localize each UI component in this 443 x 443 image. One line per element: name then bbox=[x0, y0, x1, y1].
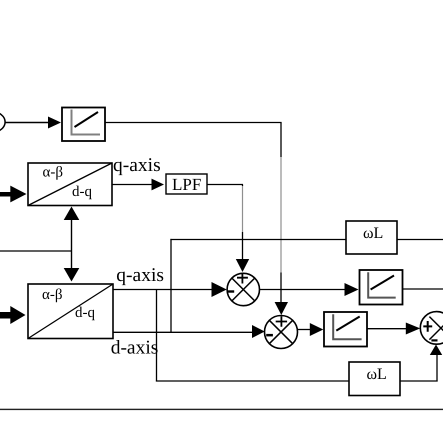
summer S1 bbox=[227, 273, 259, 305]
arrowhead into ramp block bbox=[48, 117, 61, 129]
G1 axis bbox=[72, 110, 101, 135]
PI2 ramp line bbox=[336, 317, 359, 331]
wire from G1 to corner bbox=[105, 122, 282, 124]
summer S3 (cut at right edge) bbox=[420, 312, 443, 345]
wire T1 to LPF bbox=[112, 184, 152, 186]
S2 minus sign (left) bbox=[266, 334, 273, 337]
S1 minus sign (left) bbox=[227, 290, 234, 292]
svg-text:d-q: d-q bbox=[75, 305, 95, 321]
transform block T2 alpha-beta/d-q bbox=[28, 284, 113, 339]
T2 diagonal bbox=[28, 284, 113, 339]
d-axis wire from T2 to summer S2 bbox=[113, 331, 253, 333]
wire from sensor to ramp block bbox=[5, 122, 49, 124]
T1 diagonal bbox=[28, 163, 112, 206]
summer S2 bbox=[265, 316, 298, 349]
wire PI1 to right edge bbox=[403, 288, 443, 290]
wire down from LPF corner to summer S1 bbox=[242, 185, 244, 187]
wire upper omega-L to right edge bbox=[397, 239, 443, 241]
arrowhead into S2 left bbox=[252, 325, 265, 338]
arrowhead into S3 bottom bbox=[430, 345, 442, 356]
G1 ramp line bbox=[75, 112, 99, 127]
S2 plus sign (top) bbox=[276, 316, 287, 327]
branch A: q-axis current down bbox=[156, 290, 158, 382]
svg-text:d-axis: d-axis bbox=[111, 338, 159, 359]
thick input arrow into T2 bbox=[10, 306, 25, 324]
PI1 ramp line bbox=[371, 276, 394, 290]
svg-text:ωL: ωL bbox=[363, 225, 383, 242]
wire LPF to corner bbox=[207, 184, 243, 186]
LPF block bbox=[166, 174, 207, 194]
wire lower omega-L to corner bbox=[400, 380, 438, 382]
svg-text:q-axis: q-axis bbox=[116, 265, 164, 286]
svg-text:α-β: α-β bbox=[43, 165, 64, 181]
svg-text:q-axis: q-axis bbox=[113, 155, 161, 176]
wire from left edge to bidirectional line bbox=[0, 250, 72, 252]
thick input arrow into T1 bbox=[10, 186, 26, 203]
wire S1 to PI1 bbox=[260, 289, 346, 291]
q-axis wire from T2 to summer S1 bbox=[113, 289, 212, 291]
transform block T1 alpha-beta/d-q bbox=[28, 163, 112, 206]
arrowhead into PI2 bbox=[310, 323, 324, 336]
upper omega-L block bbox=[346, 221, 397, 254]
input sensor circle (cut at left edge) bbox=[0, 112, 5, 132]
PI block PI1 bbox=[360, 270, 403, 305]
S3 minus sign (bottom) bbox=[431, 339, 437, 341]
S3 plus sign (left) bbox=[423, 321, 432, 332]
svg-text:α-β: α-β bbox=[42, 287, 63, 303]
svg-text:LPF: LPF bbox=[172, 175, 201, 194]
ramp block G1 (rate limiter symbol) bbox=[62, 108, 105, 142]
PI1 axis bbox=[368, 272, 396, 297]
svg-text:ωL: ωL bbox=[367, 366, 387, 383]
arrowhead into LPF bbox=[152, 179, 165, 191]
wire down from corner to summer S2 bbox=[280, 123, 282, 158]
branch B: d-axis current up bbox=[170, 239, 172, 332]
PI block PI2 bbox=[324, 312, 367, 347]
bottom rule bbox=[0, 409, 443, 410]
arrowhead into S3 left bbox=[406, 323, 420, 335]
wire PI2 to summer S3 bbox=[367, 328, 407, 330]
bidirectional arrow between T1 and T2 bbox=[71, 216, 73, 272]
arrowhead into PI1 bbox=[345, 283, 359, 296]
svg-text:d-q: d-q bbox=[72, 184, 92, 200]
arrowhead into S1 top bbox=[236, 259, 249, 272]
arrowhead into S1 left bbox=[212, 282, 227, 297]
wire S2 to PI2 bbox=[297, 329, 310, 331]
PI2 axis bbox=[333, 314, 361, 339]
arrowhead into S2 top bbox=[275, 302, 288, 315]
S1 plus sign (top) bbox=[237, 273, 248, 284]
top coupling wire to upper omega-L bbox=[170, 239, 346, 241]
lower omega-L block bbox=[349, 362, 400, 396]
bottom coupling wire to lower omega-L bbox=[156, 380, 349, 382]
wire up into S3 bottom bbox=[436, 352, 438, 382]
